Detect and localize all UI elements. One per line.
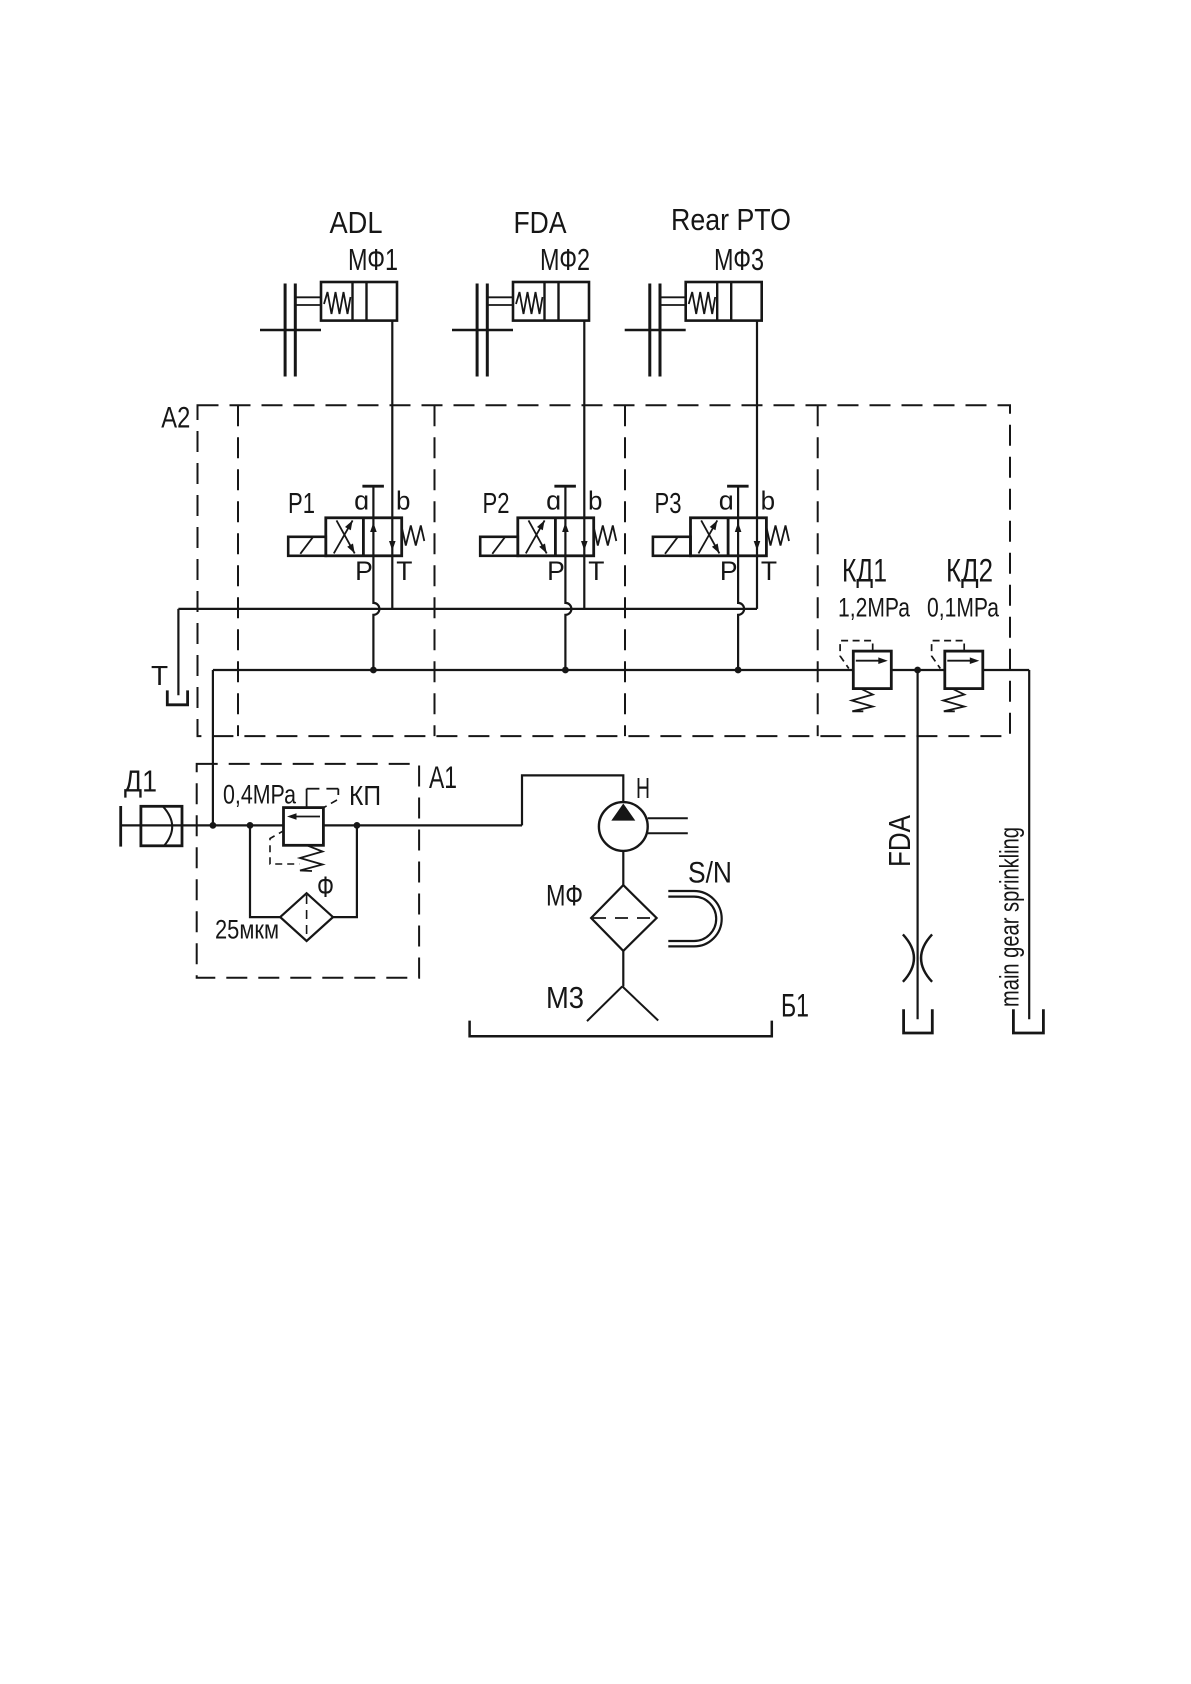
svg-text:МФ: МФ	[546, 880, 583, 913]
svg-text:P: P	[720, 556, 738, 586]
svg-text:0,4МРа: 0,4МРа	[223, 780, 297, 810]
svg-text:main gear sprinkling: main gear sprinkling	[995, 827, 1025, 1007]
svg-text:МФ3: МФ3	[714, 242, 764, 277]
svg-text:0,1МРа: 0,1МРа	[927, 593, 1000, 623]
svg-text:1,2МРа: 1,2МРа	[838, 593, 911, 623]
svg-text:А2: А2	[161, 402, 190, 435]
svg-text:КД1: КД1	[842, 553, 887, 589]
svg-text:КД2: КД2	[946, 553, 993, 589]
svg-text:T: T	[588, 556, 604, 586]
svg-text:Ф: Ф	[317, 871, 334, 904]
svg-text:МФ2: МФ2	[540, 242, 590, 277]
svg-text:25мкм: 25мкм	[215, 915, 279, 945]
svg-text:ɑ: ɑ	[354, 485, 369, 515]
svg-text:Н: Н	[636, 773, 650, 805]
svg-text:P: P	[355, 556, 373, 586]
svg-text:ɑ: ɑ	[546, 485, 561, 515]
svg-text:А1: А1	[429, 759, 457, 795]
svg-text:b: b	[588, 485, 602, 515]
svg-text:Т: Т	[151, 660, 168, 691]
svg-text:М3: М3	[546, 980, 584, 1015]
svg-text:КП: КП	[349, 780, 381, 811]
svg-text:FDA: FDA	[882, 815, 917, 867]
svg-text:ɑ: ɑ	[719, 485, 734, 515]
svg-text:T: T	[396, 556, 412, 586]
svg-text:Р2: Р2	[483, 488, 510, 520]
svg-text:Р3: Р3	[655, 488, 682, 520]
svg-text:МФ1: МФ1	[348, 242, 398, 277]
svg-text:S/N: S/N	[688, 857, 732, 890]
svg-text:Д1: Д1	[124, 764, 157, 799]
svg-text:P: P	[547, 556, 565, 586]
svg-text:Rear PTO: Rear PTO	[671, 202, 791, 237]
svg-text:Б1: Б1	[781, 988, 809, 1024]
svg-text:Р1: Р1	[288, 488, 315, 520]
svg-text:ADL: ADL	[330, 205, 383, 240]
svg-text:b: b	[761, 485, 775, 515]
svg-text:FDA: FDA	[514, 205, 567, 240]
svg-text:T: T	[761, 556, 777, 586]
svg-text:b: b	[396, 485, 410, 515]
